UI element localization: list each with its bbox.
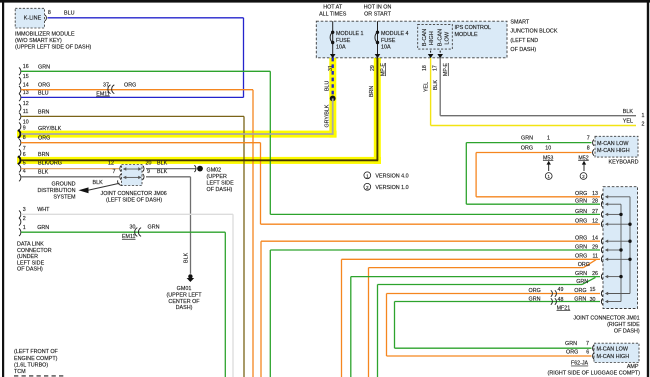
svg-text:6: 6 <box>586 349 589 355</box>
AMP box <box>594 343 639 362</box>
ground GM01 <box>188 274 192 278</box>
wire GRN DLC vertical to bottom <box>224 232 226 377</box>
wire ORG TCM pin8 vertical <box>260 143 262 225</box>
wire BRN TCM pin11 horizontal <box>21 115 244 117</box>
svg-text:FUSE: FUSE <box>336 38 351 44</box>
JM01 internal bus orange <box>629 197 631 294</box>
svg-text:BLU: BLU <box>64 11 75 17</box>
svg-text:1: 1 <box>642 113 645 119</box>
wire ORG from bottom to JM01 pin11 <box>342 258 601 260</box>
svg-text:10A: 10A <box>336 44 346 50</box>
svg-text:ALL TIMES: ALL TIMES <box>319 11 347 17</box>
svg-text:GRY/BLK: GRY/BLK <box>38 126 62 132</box>
svg-text:GROUND: GROUND <box>52 181 76 187</box>
wire ORG keyboard to JM01 pin13 <box>476 196 600 198</box>
svg-text:1: 1 <box>547 174 550 179</box>
svg-text:10A: 10A <box>381 44 391 50</box>
inline connector MF21 <box>551 290 553 296</box>
TCM module box dashed edge <box>14 375 64 377</box>
svg-text:M-CAN HIGH: M-CAN HIGH <box>597 148 630 154</box>
ground distribution arrow <box>79 187 89 193</box>
svg-text:VERSION 4.0: VERSION 4.0 <box>375 174 408 180</box>
svg-text:EM11: EM11 <box>122 234 135 240</box>
border frame right <box>647 0 649 377</box>
JM06 pin 9 exit <box>143 174 144 180</box>
fuse MODULE 1 10A <box>332 21 334 58</box>
svg-text:18: 18 <box>422 65 428 71</box>
svg-text:LEFT SIDE: LEFT SIDE <box>17 260 45 266</box>
svg-text:GRN: GRN <box>37 225 49 231</box>
TCM connector pin 7 <box>19 149 21 157</box>
wire ORG keyboard horizontal <box>476 152 591 154</box>
TCM connector pin 4 label BLK <box>19 174 21 182</box>
TCM connector pin 16 label GRN <box>19 68 21 76</box>
wire BLK vertical to GM01 <box>190 177 192 274</box>
highlight band BRN circuit horizontal <box>17 157 381 164</box>
wire GRN TCM pin16 horizontal <box>21 70 270 72</box>
svg-text:1: 1 <box>366 173 369 178</box>
wire BLU TCM pin13 horizontal <box>21 96 244 98</box>
JM01 internal pin arrows <box>607 196 630 198</box>
wire BLK/ORG TCM pin5 horizontal <box>21 168 119 170</box>
svg-text:OF DASH): OF DASH) <box>17 267 43 273</box>
smart junction block box <box>316 21 507 58</box>
wire BLU K-line vertical <box>243 18 245 98</box>
svg-text:(UNDER: (UNDER <box>17 254 38 260</box>
svg-text:ENGINE COMPT): ENGINE COMPT) <box>14 356 58 362</box>
svg-text:13: 13 <box>23 90 29 96</box>
svg-text:ORG: ORG <box>574 288 586 294</box>
svg-text:LOW: LOW <box>445 31 451 44</box>
svg-text:15: 15 <box>590 287 596 293</box>
JM01 pin 14 entry ORG <box>601 238 602 244</box>
svg-text:DISTRIBUTION: DISTRIBUTION <box>37 188 75 194</box>
svg-text:IPS CONTROL: IPS CONTROL <box>455 25 492 31</box>
border frame left <box>2 0 4 377</box>
svg-text:ORG: ORG <box>578 262 590 268</box>
svg-text:48: 48 <box>558 297 564 303</box>
JM01 pin 27 entry GRN <box>601 211 602 217</box>
wire ORG TCM pin14 vertical to bottom <box>252 90 254 377</box>
svg-text:AMP: AMP <box>627 364 639 370</box>
svg-text:IMMOBILIZER MODULE: IMMOBILIZER MODULE <box>15 32 75 38</box>
svg-text:M52: M52 <box>578 155 588 161</box>
keyboard M-CAN HIGH entry <box>593 149 594 155</box>
svg-text:7: 7 <box>23 146 26 152</box>
wire BRN TCM pin11 vertical to bottom <box>243 116 245 377</box>
wire ORG TCM pin14 horizontal <box>21 89 253 91</box>
wire GRN DLC pin1 horizontal <box>21 231 225 233</box>
wire GRN AMP to JM01 pin30 <box>395 301 601 303</box>
DLC pin 2 <box>19 218 21 226</box>
wire WHT vertical to bottom <box>232 214 234 377</box>
svg-text:1: 1 <box>547 135 550 141</box>
wire BLU K-line horizontal <box>48 17 244 19</box>
TCM connector pin 11 label BRN <box>19 113 21 121</box>
TCM connector pin 13 label BLU <box>19 94 21 102</box>
svg-text:M-CAN LOW: M-CAN LOW <box>597 346 629 352</box>
svg-text:14: 14 <box>23 82 29 88</box>
wire ORG AMP to JM01 pin15 <box>387 293 601 295</box>
svg-text:9: 9 <box>147 169 150 175</box>
wire YEL IPS pin18 vertical <box>430 58 432 126</box>
svg-text:(RIGHT SIDE OF LUGGAGE COMPT): (RIGHT SIDE OF LUGGAGE COMPT) <box>548 370 641 376</box>
svg-text:ORG: ORG <box>38 136 50 142</box>
TCM connector pin 5 label BLK/ORG <box>19 165 21 173</box>
TCM connector pin 8 label ORG <box>19 139 21 147</box>
svg-text:1: 1 <box>23 225 26 231</box>
svg-text:8: 8 <box>48 10 51 16</box>
AMP M-CAN HIGH entry <box>593 353 594 359</box>
svg-text:2: 2 <box>642 122 645 128</box>
svg-text:7: 7 <box>113 169 116 175</box>
svg-text:(UPPER LEFT SIDE OF DASH): (UPPER LEFT SIDE OF DASH) <box>15 45 91 51</box>
wire GRN TCM16 to JM01 pin27 <box>270 213 600 215</box>
svg-text:ORG: ORG <box>38 83 50 89</box>
wire BLK TCM pin4 horizontal <box>21 176 119 178</box>
svg-text:GRN: GRN <box>38 64 50 70</box>
svg-text:BLK: BLK <box>157 161 168 167</box>
wire ORG ramp to JM01 pin11 <box>369 267 584 269</box>
svg-text:(LEFT SIDE OF DASH): (LEFT SIDE OF DASH) <box>106 198 162 204</box>
AMP M-CAN LOW entry <box>593 345 594 351</box>
svg-text:GRN: GRN <box>148 225 160 231</box>
svg-text:2: 2 <box>23 216 26 222</box>
JM01 pin 26 entry GRN <box>601 274 602 280</box>
svg-text:(UPPER LEFT: (UPPER LEFT <box>166 292 202 298</box>
version marker 2 at M52 <box>580 173 587 180</box>
svg-text:ORG: ORG <box>529 288 541 294</box>
DLC pin 1 label GRN <box>19 228 21 236</box>
IPS control module box <box>418 24 453 49</box>
svg-text:ORG: ORG <box>124 82 136 88</box>
JM06 pin 12 entry <box>120 166 121 172</box>
svg-text:M-CAN HIGH: M-CAN HIGH <box>597 354 630 360</box>
svg-text:BRN: BRN <box>369 86 375 97</box>
wire BLK ground distribution diagonal <box>88 183 120 190</box>
TCM connector pin 12 <box>19 104 21 112</box>
svg-text:JUNCTION BLOCK: JUNCTION BLOCK <box>510 29 557 35</box>
svg-text:10: 10 <box>23 119 29 125</box>
svg-text:BLK: BLK <box>93 180 104 186</box>
keyboard M-CAN LOW entry <box>593 140 594 146</box>
svg-text:GM01: GM01 <box>177 286 192 292</box>
JM01 pin 11 entry ORG <box>601 256 602 262</box>
svg-text:12: 12 <box>23 101 29 107</box>
svg-text:BRN: BRN <box>38 109 49 115</box>
svg-text:(LEFT END: (LEFT END <box>510 38 538 44</box>
wire YEL to right edge <box>431 125 636 127</box>
TCM connector pin 15 <box>19 77 21 85</box>
svg-text:K-LINE: K-LINE <box>24 15 42 21</box>
JM01 pin 13 entry ORG <box>601 194 602 200</box>
wire GRY/BLK vertical highlighted <box>332 98 334 134</box>
svg-text:29: 29 <box>370 65 376 71</box>
wire BRN dark TCM pin6 horizontal highlighted <box>21 159 378 161</box>
svg-text:GRN: GRN <box>574 296 586 302</box>
svg-text:(LEFT FRONT OF: (LEFT FRONT OF <box>14 349 59 355</box>
svg-text:CONNECTOR: CONNECTOR <box>17 248 52 254</box>
wire BLK JM06 pin20 to GM02 <box>146 168 197 170</box>
svg-text:17: 17 <box>433 65 439 71</box>
svg-text:2: 2 <box>366 185 369 190</box>
svg-text:M-CAN LOW: M-CAN LOW <box>597 141 629 147</box>
version marker 1 at M53 <box>545 173 552 180</box>
svg-text:3: 3 <box>23 207 26 213</box>
svg-text:30: 30 <box>590 297 596 303</box>
SJB exit arrows <box>330 54 336 58</box>
K-LINE connector arc <box>45 15 46 21</box>
svg-text:BLK: BLK <box>184 252 190 263</box>
wire BRN dark vertical highlighted <box>376 58 378 161</box>
JM01 internal junction dots <box>619 213 622 216</box>
svg-text:OF DASH): OF DASH) <box>207 187 233 193</box>
wire ORG to AMP <box>387 355 592 357</box>
JM01 pin 12 entry ORG <box>601 221 602 227</box>
svg-text:JOINT CONNECTOR JM01: JOINT CONNECTOR JM01 <box>573 316 639 322</box>
svg-text:MODULE: MODULE <box>455 32 478 38</box>
TCM connector pin 14 label ORG <box>19 86 21 94</box>
svg-text:MODULE 1: MODULE 1 <box>336 31 364 37</box>
JM01 pin 28 entry GRN <box>601 201 602 207</box>
svg-text:5: 5 <box>23 161 26 167</box>
svg-text:9: 9 <box>23 125 26 131</box>
svg-text:BLK: BLK <box>433 80 439 90</box>
svg-text:GRN: GRN <box>565 341 577 347</box>
svg-text:YEL: YEL <box>424 82 430 92</box>
version 4.0 note <box>364 172 371 179</box>
JM06 ground branch connector <box>118 180 123 185</box>
svg-text:LEFT SIDE: LEFT SIDE <box>207 180 235 186</box>
JM06 pin 7 entry <box>120 174 121 180</box>
ground GM02 <box>197 166 203 172</box>
svg-text:(W/O SMART KEY): (W/O SMART KEY) <box>15 38 62 44</box>
svg-text:BLU: BLU <box>325 81 331 91</box>
svg-text:ORG: ORG <box>521 146 533 152</box>
svg-text:HOT AT: HOT AT <box>323 5 343 11</box>
svg-text:DASH): DASH) <box>176 305 193 311</box>
svg-text:OR START: OR START <box>364 11 391 17</box>
wire GRN from bottom to JM01 pin29 <box>270 249 600 251</box>
svg-text:MP-E: MP-E <box>380 62 386 76</box>
svg-text:30: 30 <box>130 225 136 231</box>
svg-text:OF DASH): OF DASH) <box>614 329 640 335</box>
wire ORG keyboard vertical <box>475 153 477 197</box>
svg-text:OF DASH): OF DASH) <box>510 47 536 53</box>
TCM connector pin 6 label BRN <box>18 156 21 164</box>
wire BLK JM06 pin9 horizontal <box>146 176 191 178</box>
svg-text:KEYBOARD: KEYBOARD <box>609 160 639 166</box>
svg-text:BLK: BLK <box>157 169 168 175</box>
JM06 internal bus arrows <box>126 168 140 170</box>
wire GRN from bottom to JM01 pin26 <box>351 276 600 278</box>
border frame top <box>0 0 650 3</box>
svg-text:F62-JA: F62-JA <box>571 361 589 367</box>
wire GRN keyboard to JM01 pin28 <box>466 203 600 205</box>
svg-text:HIGH: HIGH <box>429 31 435 45</box>
svg-text:7: 7 <box>587 135 590 141</box>
wire GRY/BLK TCM pin9 horizontal <box>21 133 334 135</box>
svg-text:SMART: SMART <box>510 20 529 26</box>
svg-text:CENTER OF: CENTER OF <box>168 299 200 305</box>
JM01 pin 15 entry ORG <box>601 290 602 296</box>
svg-text:7: 7 <box>586 341 589 347</box>
wire GRN ramp to JM01 pin26 <box>378 284 583 286</box>
svg-text:49: 49 <box>558 287 564 293</box>
svg-text:BLK/ORG: BLK/ORG <box>38 161 62 167</box>
wire GRN keyboard horizontal <box>466 142 591 144</box>
svg-text:6: 6 <box>23 152 26 158</box>
joint connector JM01 box <box>603 187 638 309</box>
svg-text:SYSTEM: SYSTEM <box>53 194 76 200</box>
wire ORG TCM8 to JM01 pin12 <box>261 223 601 225</box>
svg-text:BLK: BLK <box>38 170 49 176</box>
DLC pin 3 label WHT <box>19 211 21 219</box>
svg-text:ORG: ORG <box>566 349 578 355</box>
TCM connector pin 10 <box>19 123 21 131</box>
svg-text:GRN: GRN <box>521 135 533 141</box>
svg-text:8: 8 <box>23 135 26 141</box>
JM06 pin 20 exit <box>143 166 144 172</box>
svg-text:MODULE 4: MODULE 4 <box>381 31 409 37</box>
TCM connector pin 9 label GRY/BLK <box>18 130 21 138</box>
wire BLK IPS pin17 vertical <box>439 58 441 116</box>
keyboard box <box>595 136 638 157</box>
svg-text:(RIGHT SIDE: (RIGHT SIDE <box>607 322 640 328</box>
joint connector JM06 box <box>122 165 143 186</box>
wire BLK to right edge <box>440 115 636 117</box>
svg-text:MF21: MF21 <box>557 305 571 311</box>
highlight band GRY/BLK circuit horizontal <box>17 131 337 138</box>
svg-text:12: 12 <box>108 161 114 167</box>
svg-text:BRN: BRN <box>38 152 49 158</box>
highlight band BRN circuit vertical <box>374 58 381 164</box>
svg-text:GM02: GM02 <box>207 167 222 173</box>
svg-text:8: 8 <box>587 146 590 152</box>
wire ORG TCM pin8 horizontal <box>21 142 261 144</box>
svg-text:10: 10 <box>545 146 551 152</box>
JM01 pin 30 entry GRN <box>601 298 602 304</box>
svg-text:4: 4 <box>23 169 26 175</box>
svg-text:B-CAN: B-CAN <box>438 29 444 46</box>
junction dot BLU/GRY-BLK <box>330 96 336 102</box>
svg-text:GRN: GRN <box>529 296 541 302</box>
version 1.0 note <box>364 183 371 190</box>
svg-text:11: 11 <box>23 109 29 115</box>
svg-text:YEL: YEL <box>623 118 633 124</box>
svg-text:MP-E: MP-E <box>443 62 449 76</box>
immobilizer module K-LINE box <box>15 8 44 28</box>
svg-text:GRN: GRN <box>576 279 588 285</box>
svg-text:BLK: BLK <box>623 109 634 115</box>
svg-text:JOINT CONNECTOR JM06: JOINT CONNECTOR JM06 <box>101 191 167 197</box>
wire WHT DLC pin3 horizontal <box>21 213 233 215</box>
svg-text:EM11: EM11 <box>96 91 109 97</box>
svg-text:20: 20 <box>146 161 152 167</box>
svg-text:VERSION 1.0: VERSION 1.0 <box>375 185 408 191</box>
svg-text:(1.6L TURBO): (1.6L TURBO) <box>14 362 48 368</box>
svg-text:WHT: WHT <box>37 207 50 213</box>
svg-text:BLU: BLU <box>38 90 49 96</box>
svg-text:GRY/BLK: GRY/BLK <box>325 104 331 127</box>
wire GRN to AMP <box>395 347 592 349</box>
JM01 pin 29 entry GRN <box>601 247 602 253</box>
JM01 internal bus green <box>620 204 622 301</box>
highlight band GRY/BLK circuit vertical <box>329 58 336 138</box>
svg-text:15: 15 <box>23 74 29 80</box>
svg-text:(UPPER: (UPPER <box>207 174 227 180</box>
svg-text:16: 16 <box>23 64 29 70</box>
svg-text:DATA LINK: DATA LINK <box>17 242 44 248</box>
svg-text:TCM: TCM <box>14 369 26 375</box>
svg-text:M53: M53 <box>543 155 553 161</box>
wire BLU dashed highlighted vertical <box>332 58 334 99</box>
IPS dashed leads <box>430 51 432 58</box>
svg-text:B-CAN: B-CAN <box>422 29 428 46</box>
fuse MODULE 4 10A <box>377 21 379 58</box>
svg-text:HOT IN ON: HOT IN ON <box>364 5 392 11</box>
wire GRN keyboard vertical <box>465 143 467 205</box>
svg-text:2: 2 <box>582 174 585 179</box>
wire GRN TCM pin16 vertical <box>269 71 271 214</box>
wire ORG from bottom to JM01 pin14 <box>261 240 600 242</box>
svg-text:FUSE: FUSE <box>381 38 396 44</box>
